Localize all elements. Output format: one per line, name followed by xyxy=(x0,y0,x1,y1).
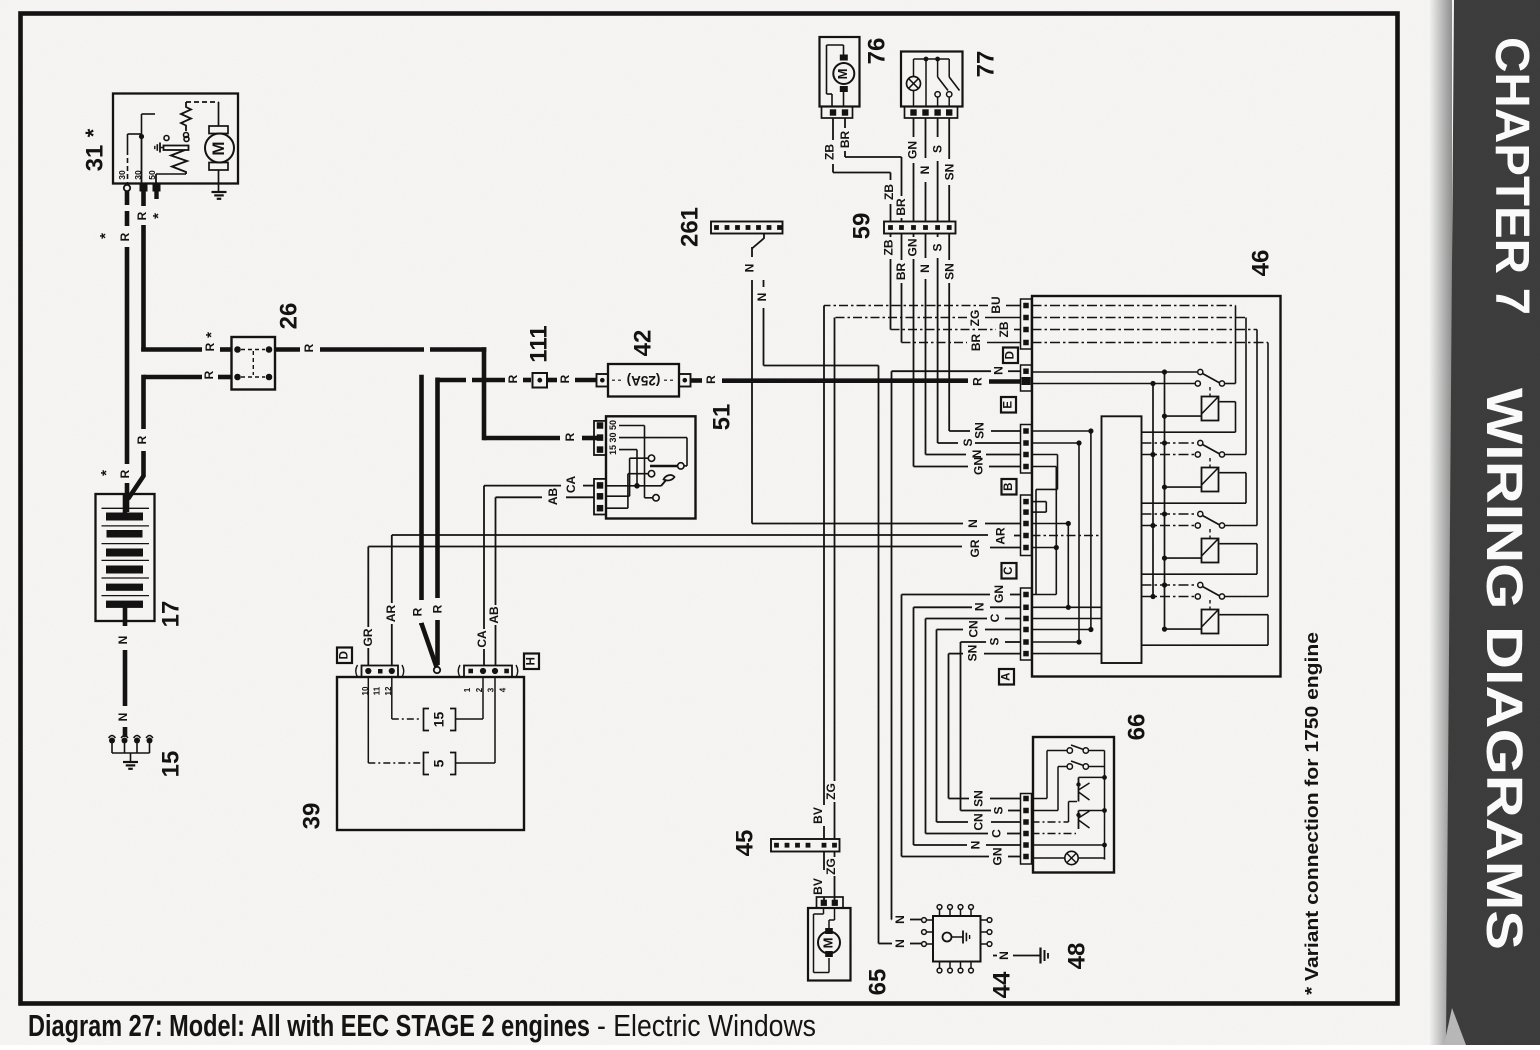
relay K3 with switch (rear left window) xyxy=(1142,513,1198,515)
wire CA: ignition switch 51 to control unit 39 xyxy=(583,485,594,487)
earth point 15 xyxy=(109,738,115,744)
wire ZB: motor 76 to connector 59 xyxy=(832,118,834,140)
wire BR: 59 to window unit 46 xyxy=(901,234,903,261)
control unit 39 xyxy=(337,677,524,830)
junction unit 44 xyxy=(933,916,981,962)
wire S: 46 to switch pack 66 xyxy=(1005,641,1021,643)
switch contacts inside 66 (upper) xyxy=(1032,798,1048,800)
wire AR: control unit 39 to window unit 46 xyxy=(391,624,393,666)
window switch pack 66 xyxy=(1033,737,1114,873)
wire R: connector 26 to fusebox 17 xyxy=(218,375,232,380)
connector H of 39 xyxy=(464,666,512,678)
wire SN: 59 to window unit 46 xyxy=(948,234,950,261)
connector strip C of 46 xyxy=(1021,495,1032,556)
starter motor 31 xyxy=(113,94,238,184)
internal link 15 of 39 xyxy=(391,677,393,719)
ignition switch 51 xyxy=(606,416,696,518)
control module block inside 46 xyxy=(1102,416,1142,663)
internal link 5 of 39 xyxy=(367,677,369,763)
window lift control unit 46 (outline) xyxy=(1032,296,1281,677)
wire R: connector 26 to ignition switch 51 xyxy=(275,347,300,352)
wire N: 59 to window unit 46 xyxy=(925,234,927,259)
wire ZG: window unit 46 to motor 65 xyxy=(985,317,1021,319)
internal wire: A-C pin to module xyxy=(1032,618,1102,620)
wire R: 111 to fuse 42 xyxy=(547,378,557,383)
wire N: window unit 46 to junction box 44 xyxy=(1008,370,1021,372)
internal wire: AR pin to module xyxy=(1032,535,1102,537)
fuse 42 xyxy=(597,374,609,387)
wire N: 261 branch to junction box 44 xyxy=(763,280,765,287)
internal feed BV xyxy=(1032,305,1236,307)
connector strip D of 46 xyxy=(1021,299,1032,349)
internal feed ZB xyxy=(1032,329,1258,331)
rail R inside 46 xyxy=(1152,384,1154,597)
fusebox 17 xyxy=(96,494,155,621)
boxed label A xyxy=(999,669,1014,685)
connector strip of 66 xyxy=(1021,794,1032,865)
wire R: fuse 42 to window unit 46 xyxy=(691,378,703,383)
wire N: 46 to switch pack 66 xyxy=(990,606,1021,608)
internal feed ZG xyxy=(1032,317,1247,319)
internal feed BR xyxy=(1032,342,1269,344)
rail N inside 46 xyxy=(1164,372,1166,629)
internal wire: A-SN pin to module xyxy=(1032,653,1102,655)
internal wire: A-group GN loop xyxy=(1032,594,1057,596)
relay K2 with switch (front right window) xyxy=(1142,442,1198,444)
wire GN: 46 to switch pack 66 xyxy=(1010,594,1021,596)
connector strip A of 46 xyxy=(1021,588,1032,660)
wire BV: window unit 46 to motor 65 xyxy=(1006,305,1021,307)
earth point 48 xyxy=(1036,955,1041,957)
connector strip E of 46 xyxy=(1021,365,1032,391)
internal wire: B-SN to A-CN xyxy=(1032,430,1091,432)
window motor 65 xyxy=(808,908,851,981)
relay K4 with switch (rear right window) xyxy=(1142,584,1198,586)
internal wire: GR pin to B-group GN xyxy=(1032,547,1057,549)
boxed label E xyxy=(1001,397,1016,413)
wire N: 44 to earth 48 xyxy=(993,955,997,957)
window motor 76 xyxy=(820,37,860,107)
relay K1 with switch (front left window) xyxy=(1032,371,1198,373)
wire R: connector 26 to control unit 39 xyxy=(419,375,424,600)
in-line connector 111 xyxy=(533,373,548,388)
interlock contact k2 inside 66 xyxy=(1079,810,1105,812)
warning lamp inside 66 xyxy=(1032,857,1065,859)
wire GR: control unit 39 to window unit 46 xyxy=(367,648,369,666)
internal wire: B-S to A-S xyxy=(1032,442,1080,444)
wire SN: switch 77 to connector 59 xyxy=(948,118,950,159)
multi-plug connector 261 xyxy=(711,222,783,234)
wire R: main feed through in-line connector 111 and fuse 42 xyxy=(438,378,467,383)
internal wire: N bus pin C-group to A-group xyxy=(1032,523,1069,525)
wire GN: 59 to window unit 46 xyxy=(913,234,915,238)
wire N: switch 77 to connector 59 xyxy=(925,118,927,158)
multi-plug connector 59 xyxy=(884,222,956,234)
wire ZB: 59 to window unit 46 xyxy=(890,234,892,238)
boxed label B xyxy=(1002,479,1017,495)
sidebar black bar xyxy=(1446,0,1540,1045)
wire C: 46 to switch pack 66 xyxy=(1005,618,1021,620)
wire GN: switch 77 to connector 59 xyxy=(913,118,915,137)
multi-plug connector 45 xyxy=(771,839,840,852)
connector D of 39 xyxy=(362,666,399,678)
boxed label D (46) xyxy=(1003,348,1018,364)
connector 26 xyxy=(232,337,276,390)
wire R: feed junction to control unit 39 xyxy=(435,378,440,599)
wire AB: ignition switch 51 to control unit 39 xyxy=(566,496,594,498)
wire BR: motor 76 to connector 59 xyxy=(844,118,846,128)
interlock contact k1 inside 66 xyxy=(1079,776,1105,778)
wire SN: 46 to switch pack 66 xyxy=(984,653,1021,655)
wire R: 31 pin 30 to fusebox 17 xyxy=(125,192,130,206)
wire N: 261 to window unit 46 xyxy=(763,234,765,239)
wire CN: 46 to switch pack 66 xyxy=(985,629,1021,631)
window switch 77 xyxy=(901,52,963,107)
wire N inside 66 xyxy=(1032,844,1105,846)
internal wire: A-N pin to module xyxy=(1032,606,1102,608)
boxed label C xyxy=(1002,563,1017,579)
switch contacts inside 66 (lower) xyxy=(1032,810,1059,812)
wire R: 31 pin 30 to connector 26 xyxy=(141,192,146,207)
wire S: 59 to window unit 46 xyxy=(937,234,939,238)
jumper link on pins of group C xyxy=(1032,501,1047,503)
boxed label D xyxy=(337,648,352,664)
wire S: switch 77 to connector 59 xyxy=(937,118,939,137)
boxed label H xyxy=(524,654,539,670)
connector strip B of 46 xyxy=(1021,425,1032,474)
